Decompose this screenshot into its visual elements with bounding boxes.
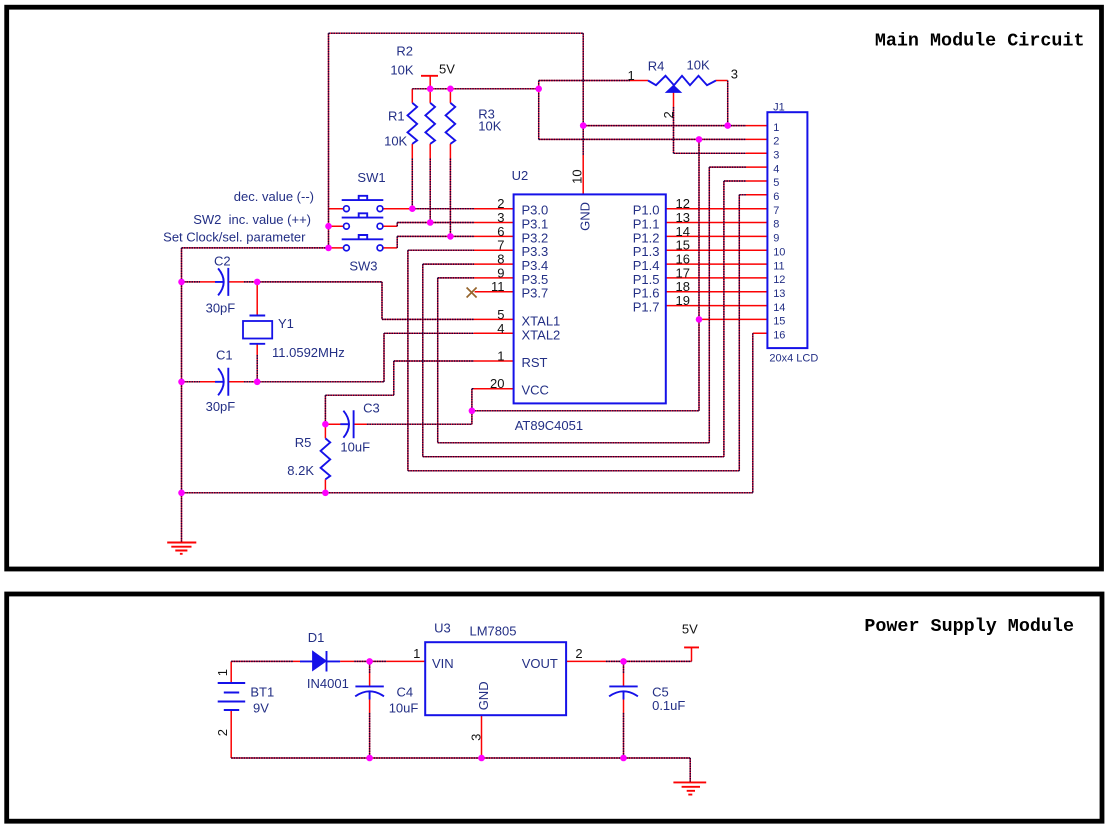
svg-text:7: 7 [497, 238, 504, 253]
svg-text:5: 5 [773, 177, 779, 189]
svg-text:16: 16 [773, 330, 785, 342]
svg-text:5V: 5V [682, 621, 698, 636]
svg-text:GND: GND [578, 202, 593, 231]
svg-text:2: 2 [497, 196, 504, 211]
svg-text:LM7805: LM7805 [470, 624, 517, 639]
svg-text:P1.5: P1.5 [633, 272, 660, 287]
svg-text:GND: GND [476, 681, 491, 710]
svg-text:10uF: 10uF [340, 440, 370, 455]
svg-text:10K: 10K [390, 63, 413, 78]
svg-text:Main Module Circuit: Main Module Circuit [875, 30, 1085, 51]
svg-text:30pF: 30pF [206, 399, 236, 414]
svg-text:P3.0: P3.0 [522, 203, 549, 218]
svg-text:9: 9 [497, 265, 504, 280]
svg-text:14: 14 [773, 302, 785, 314]
svg-text:12: 12 [773, 274, 785, 286]
svg-text:P3.2: P3.2 [522, 230, 549, 245]
svg-text:P1.7: P1.7 [633, 300, 660, 315]
svg-text:14: 14 [676, 224, 690, 239]
svg-text:1: 1 [627, 68, 634, 83]
svg-text:10uF: 10uF [389, 700, 419, 715]
svg-text:P1.6: P1.6 [633, 286, 660, 301]
svg-text:P3.1: P3.1 [522, 217, 549, 232]
svg-text:1: 1 [773, 122, 779, 134]
svg-text:Set Clock/sel. parameter: Set Clock/sel. parameter [163, 230, 306, 245]
svg-text:dec. value (--): dec. value (--) [234, 189, 314, 204]
svg-text:7: 7 [773, 205, 779, 217]
svg-text:VCC: VCC [522, 383, 549, 398]
svg-text:19: 19 [676, 293, 690, 308]
svg-text:P3.7: P3.7 [522, 286, 549, 301]
svg-text:3: 3 [497, 210, 504, 225]
svg-text:4: 4 [773, 163, 779, 175]
svg-text:4: 4 [497, 321, 504, 336]
svg-text:10K: 10K [478, 119, 501, 134]
svg-text:C2: C2 [214, 253, 231, 268]
svg-text:11.0592MHz: 11.0592MHz [272, 345, 345, 360]
svg-text:P1.3: P1.3 [633, 244, 660, 259]
svg-text:D1: D1 [308, 630, 325, 645]
svg-text:8.2K: 8.2K [287, 463, 314, 478]
svg-text:9V: 9V [253, 700, 269, 715]
svg-text:17: 17 [676, 265, 690, 280]
svg-text:20: 20 [490, 376, 504, 391]
svg-text:AT89C4051: AT89C4051 [515, 418, 583, 433]
svg-text:3: 3 [469, 734, 484, 741]
svg-text:XTAL1: XTAL1 [522, 313, 561, 328]
svg-text:SW2 inc. value (++): SW2 inc. value (++) [193, 212, 311, 227]
svg-text:P1.2: P1.2 [633, 230, 660, 245]
svg-text:9: 9 [773, 233, 779, 245]
svg-text:13: 13 [676, 210, 690, 225]
svg-text:U3: U3 [434, 621, 451, 636]
svg-text:6: 6 [773, 191, 779, 203]
svg-text:6: 6 [497, 224, 504, 239]
svg-text:XTAL2: XTAL2 [522, 327, 561, 342]
svg-text:5V: 5V [439, 61, 455, 76]
svg-text:3: 3 [731, 67, 738, 82]
svg-text:SW3: SW3 [349, 259, 377, 274]
svg-text:16: 16 [676, 252, 690, 267]
svg-text:0.1uF: 0.1uF [652, 698, 685, 713]
svg-text:BT1: BT1 [250, 685, 274, 700]
svg-text:C4: C4 [397, 685, 414, 700]
svg-text:P3.3: P3.3 [522, 244, 549, 259]
svg-text:2: 2 [215, 729, 230, 736]
svg-text:C1: C1 [216, 347, 233, 362]
svg-text:VIN: VIN [432, 656, 454, 671]
svg-text:11: 11 [773, 260, 784, 272]
svg-text:15: 15 [676, 238, 690, 253]
svg-text:VOUT: VOUT [522, 656, 558, 671]
svg-text:12: 12 [676, 196, 690, 211]
svg-text:10K: 10K [384, 133, 407, 148]
svg-text:P1.0: P1.0 [633, 203, 660, 218]
svg-text:30pF: 30pF [206, 301, 236, 316]
svg-text:Y1: Y1 [278, 316, 294, 331]
svg-text:P3.5: P3.5 [522, 272, 549, 287]
svg-text:2: 2 [661, 111, 676, 118]
svg-text:8: 8 [497, 252, 504, 267]
svg-text:R1: R1 [388, 108, 405, 123]
svg-text:IN4001: IN4001 [307, 676, 349, 691]
svg-text:RST: RST [522, 355, 548, 370]
svg-text:10: 10 [773, 246, 785, 258]
svg-text:R5: R5 [295, 435, 312, 450]
svg-text:SW1: SW1 [357, 170, 385, 185]
svg-text:C3: C3 [363, 401, 380, 416]
svg-text:1: 1 [413, 646, 420, 661]
svg-text:18: 18 [676, 279, 690, 294]
svg-text:13: 13 [773, 288, 785, 300]
svg-text:R2: R2 [396, 44, 413, 59]
svg-text:11: 11 [491, 279, 505, 294]
svg-text:P3.4: P3.4 [522, 258, 549, 273]
svg-text:1: 1 [497, 349, 504, 364]
svg-text:20x4 LCD: 20x4 LCD [769, 353, 818, 365]
svg-text:J1: J1 [773, 101, 785, 113]
svg-text:10: 10 [570, 169, 585, 183]
svg-text:10K: 10K [687, 58, 710, 73]
svg-text:U2: U2 [512, 168, 529, 183]
svg-text:5: 5 [497, 307, 504, 322]
svg-text:8: 8 [773, 219, 779, 231]
svg-text:2: 2 [773, 136, 779, 148]
svg-text:Power Supply Module: Power Supply Module [864, 616, 1074, 637]
svg-text:15: 15 [773, 316, 785, 328]
svg-text:P1.4: P1.4 [633, 258, 660, 273]
svg-text:2: 2 [575, 646, 582, 661]
svg-text:P1.1: P1.1 [633, 217, 660, 232]
svg-text:1: 1 [215, 669, 230, 676]
svg-text:R4: R4 [648, 59, 665, 74]
svg-text:3: 3 [773, 150, 779, 162]
